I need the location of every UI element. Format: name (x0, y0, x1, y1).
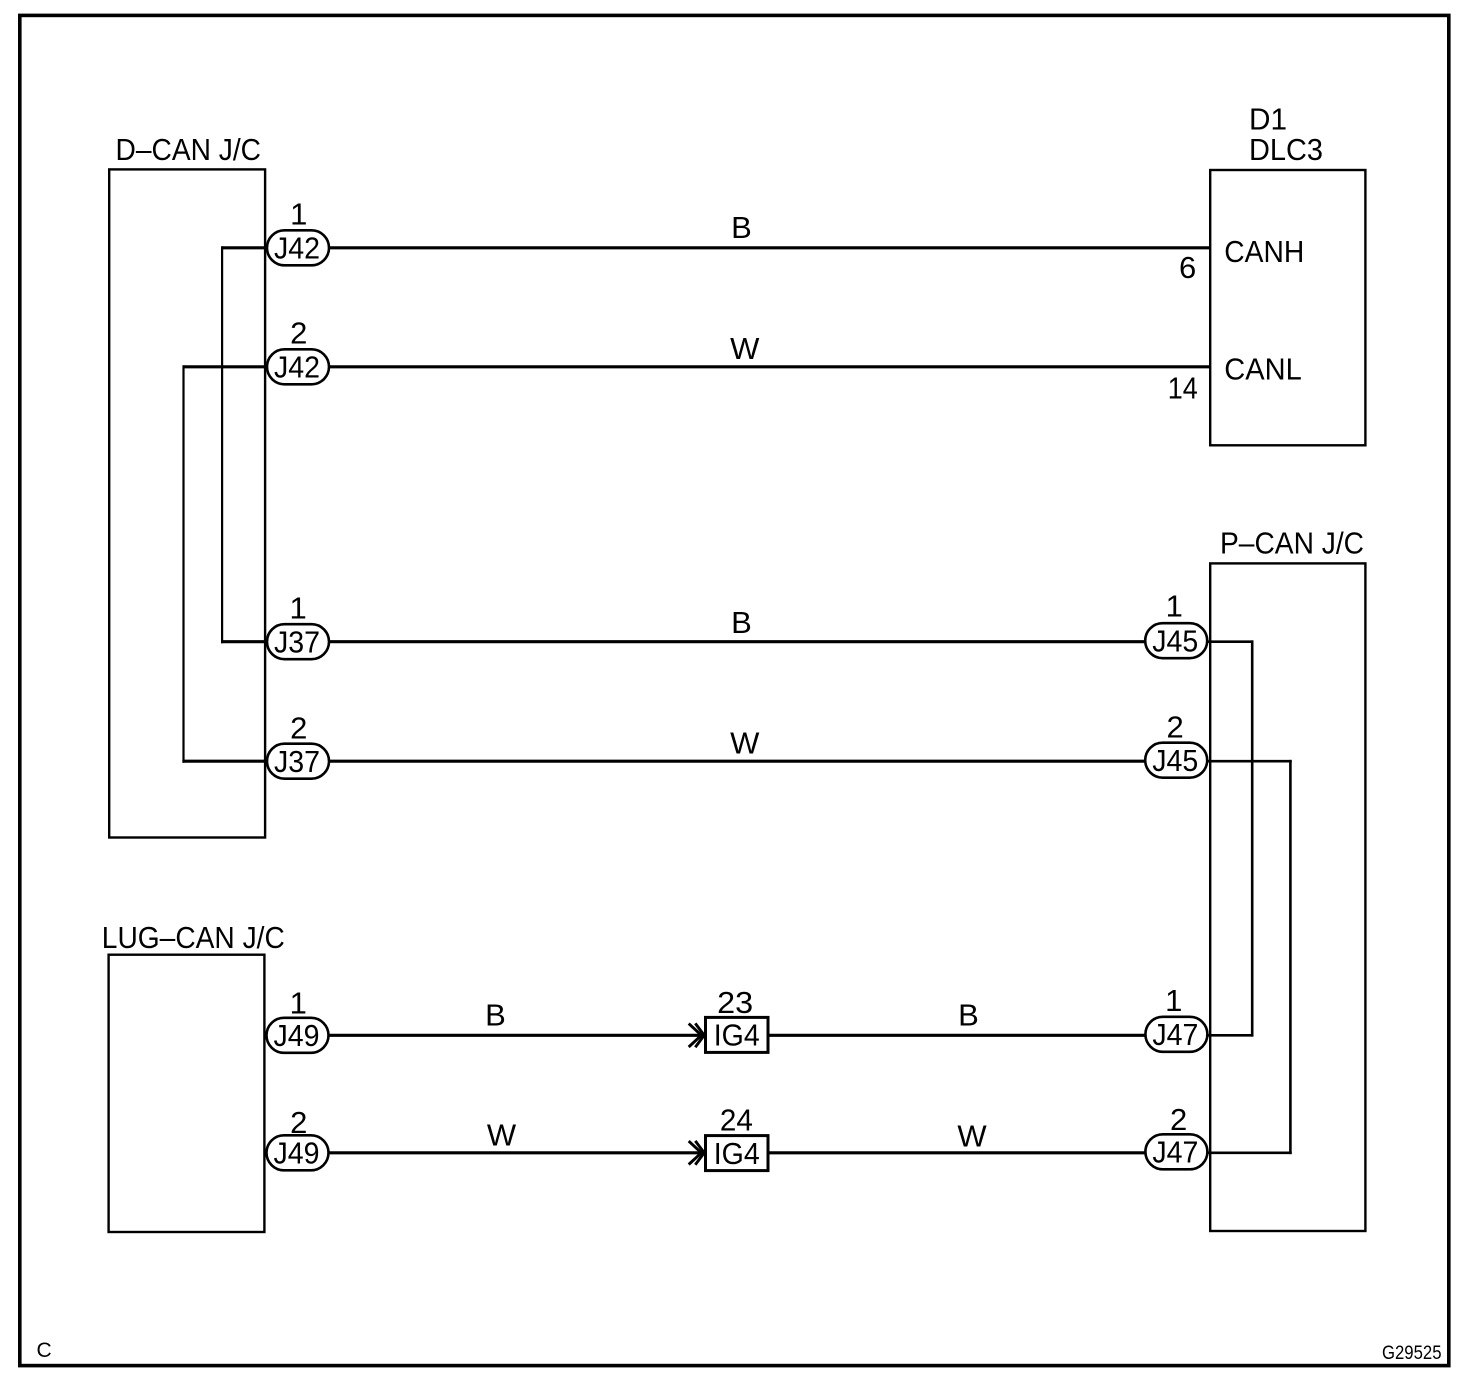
svg-text:W: W (730, 726, 760, 761)
svg-text:J47: J47 (1152, 1135, 1198, 1170)
svg-text:W: W (487, 1117, 517, 1152)
svg-text:1: 1 (289, 590, 306, 625)
terminal J45 pin 2 (1145, 710, 1207, 779)
terminal J47 pin 2 (1145, 1102, 1207, 1170)
svg-text:2: 2 (1166, 710, 1183, 745)
wire inside P-CAN J/C linking J45-2 to J47-2 (1207, 760, 1292, 1154)
svg-text:J37: J37 (274, 744, 320, 779)
svg-text:CANL: CANL (1224, 352, 1302, 387)
svg-text:W: W (957, 1118, 987, 1153)
svg-text:1: 1 (1165, 983, 1182, 1018)
connector IG4 pin 24 (706, 1103, 769, 1171)
wire B from IG4 pin23 to J47 pin1 (769, 1034, 1146, 1037)
junction connector D-CAN J/C (109, 132, 265, 838)
wire inside D-CAN J/C linking J42-1 to J37-1 (221, 246, 268, 643)
svg-text:B: B (731, 605, 752, 640)
wire B from J49 pin1 to IG4 pin23 (328, 1034, 704, 1037)
wire B from J42 pin1 to DLC3 CANH (328, 246, 1210, 249)
wire W from J49 pin2 to IG4 pin24 (328, 1151, 704, 1154)
svg-text:B: B (958, 998, 979, 1033)
wire W from J42 pin2 to DLC3 CANL (328, 365, 1210, 368)
terminal J37 pin 1 (267, 590, 329, 659)
svg-text:G29525: G29525 (1382, 1343, 1442, 1364)
svg-text:J49: J49 (274, 1136, 320, 1171)
svg-text:IG4: IG4 (714, 1018, 760, 1053)
arrow into IG4 pin 24 (689, 1141, 705, 1165)
svg-text:C: C (37, 1339, 52, 1362)
svg-text:D–CAN J/C: D–CAN J/C (116, 132, 262, 167)
svg-text:6: 6 (1179, 250, 1196, 285)
terminal J45 pin 1 (1145, 588, 1207, 658)
svg-text:J45: J45 (1152, 624, 1198, 659)
terminal J42 pin 1 (267, 196, 329, 265)
svg-text:23: 23 (717, 985, 753, 1020)
svg-text:2: 2 (1170, 1102, 1187, 1137)
svg-text:J37: J37 (274, 625, 320, 660)
arrow into IG4 pin 23 (689, 1023, 705, 1047)
svg-text:J42: J42 (274, 350, 320, 385)
wire inside P-CAN J/C linking J45-1 to J47-1 (1207, 640, 1253, 1036)
terminal J37 pin 2 (267, 710, 329, 779)
terminal J47 pin 1 (1145, 983, 1207, 1052)
svg-text:LUG–CAN J/C: LUG–CAN J/C (102, 920, 285, 955)
svg-text:J47: J47 (1152, 1017, 1198, 1052)
wire W from J37 pin2 to J45 pin2 (328, 760, 1146, 763)
svg-text:W: W (730, 331, 760, 366)
svg-text:1: 1 (1166, 588, 1183, 623)
svg-text:J45: J45 (1152, 743, 1198, 778)
svg-text:14: 14 (1168, 370, 1198, 405)
svg-text:B: B (485, 998, 506, 1033)
junction connector LUG-CAN J/C (102, 920, 285, 1232)
connector D1 DLC3 (1210, 102, 1365, 446)
wire W from IG4 pin24 to J47 pin2 (769, 1151, 1146, 1154)
junction connector P-CAN J/C (1210, 526, 1365, 1232)
svg-text:24: 24 (720, 1103, 753, 1138)
svg-text:J49: J49 (274, 1018, 320, 1053)
connector IG4 pin 23 (706, 985, 769, 1052)
wire B from J37 pin1 to J45 pin1 (328, 640, 1146, 643)
svg-text:DLC3: DLC3 (1249, 132, 1323, 167)
svg-text:J42: J42 (274, 231, 320, 266)
svg-text:IG4: IG4 (714, 1136, 760, 1171)
svg-text:B: B (731, 210, 752, 245)
wire inside D-CAN J/C linking J42-2 to J37-2 (182, 365, 268, 763)
terminal J42 pin 2 (267, 315, 329, 384)
svg-text:1: 1 (290, 196, 307, 231)
terminal J49 pin 2 (267, 1105, 329, 1171)
svg-text:1: 1 (290, 985, 307, 1020)
svg-text:P–CAN J/C: P–CAN J/C (1220, 526, 1364, 561)
svg-text:CANH: CANH (1224, 234, 1304, 269)
svg-text:2: 2 (290, 710, 307, 745)
terminal J49 pin 1 (267, 985, 329, 1053)
svg-text:2: 2 (290, 315, 307, 350)
